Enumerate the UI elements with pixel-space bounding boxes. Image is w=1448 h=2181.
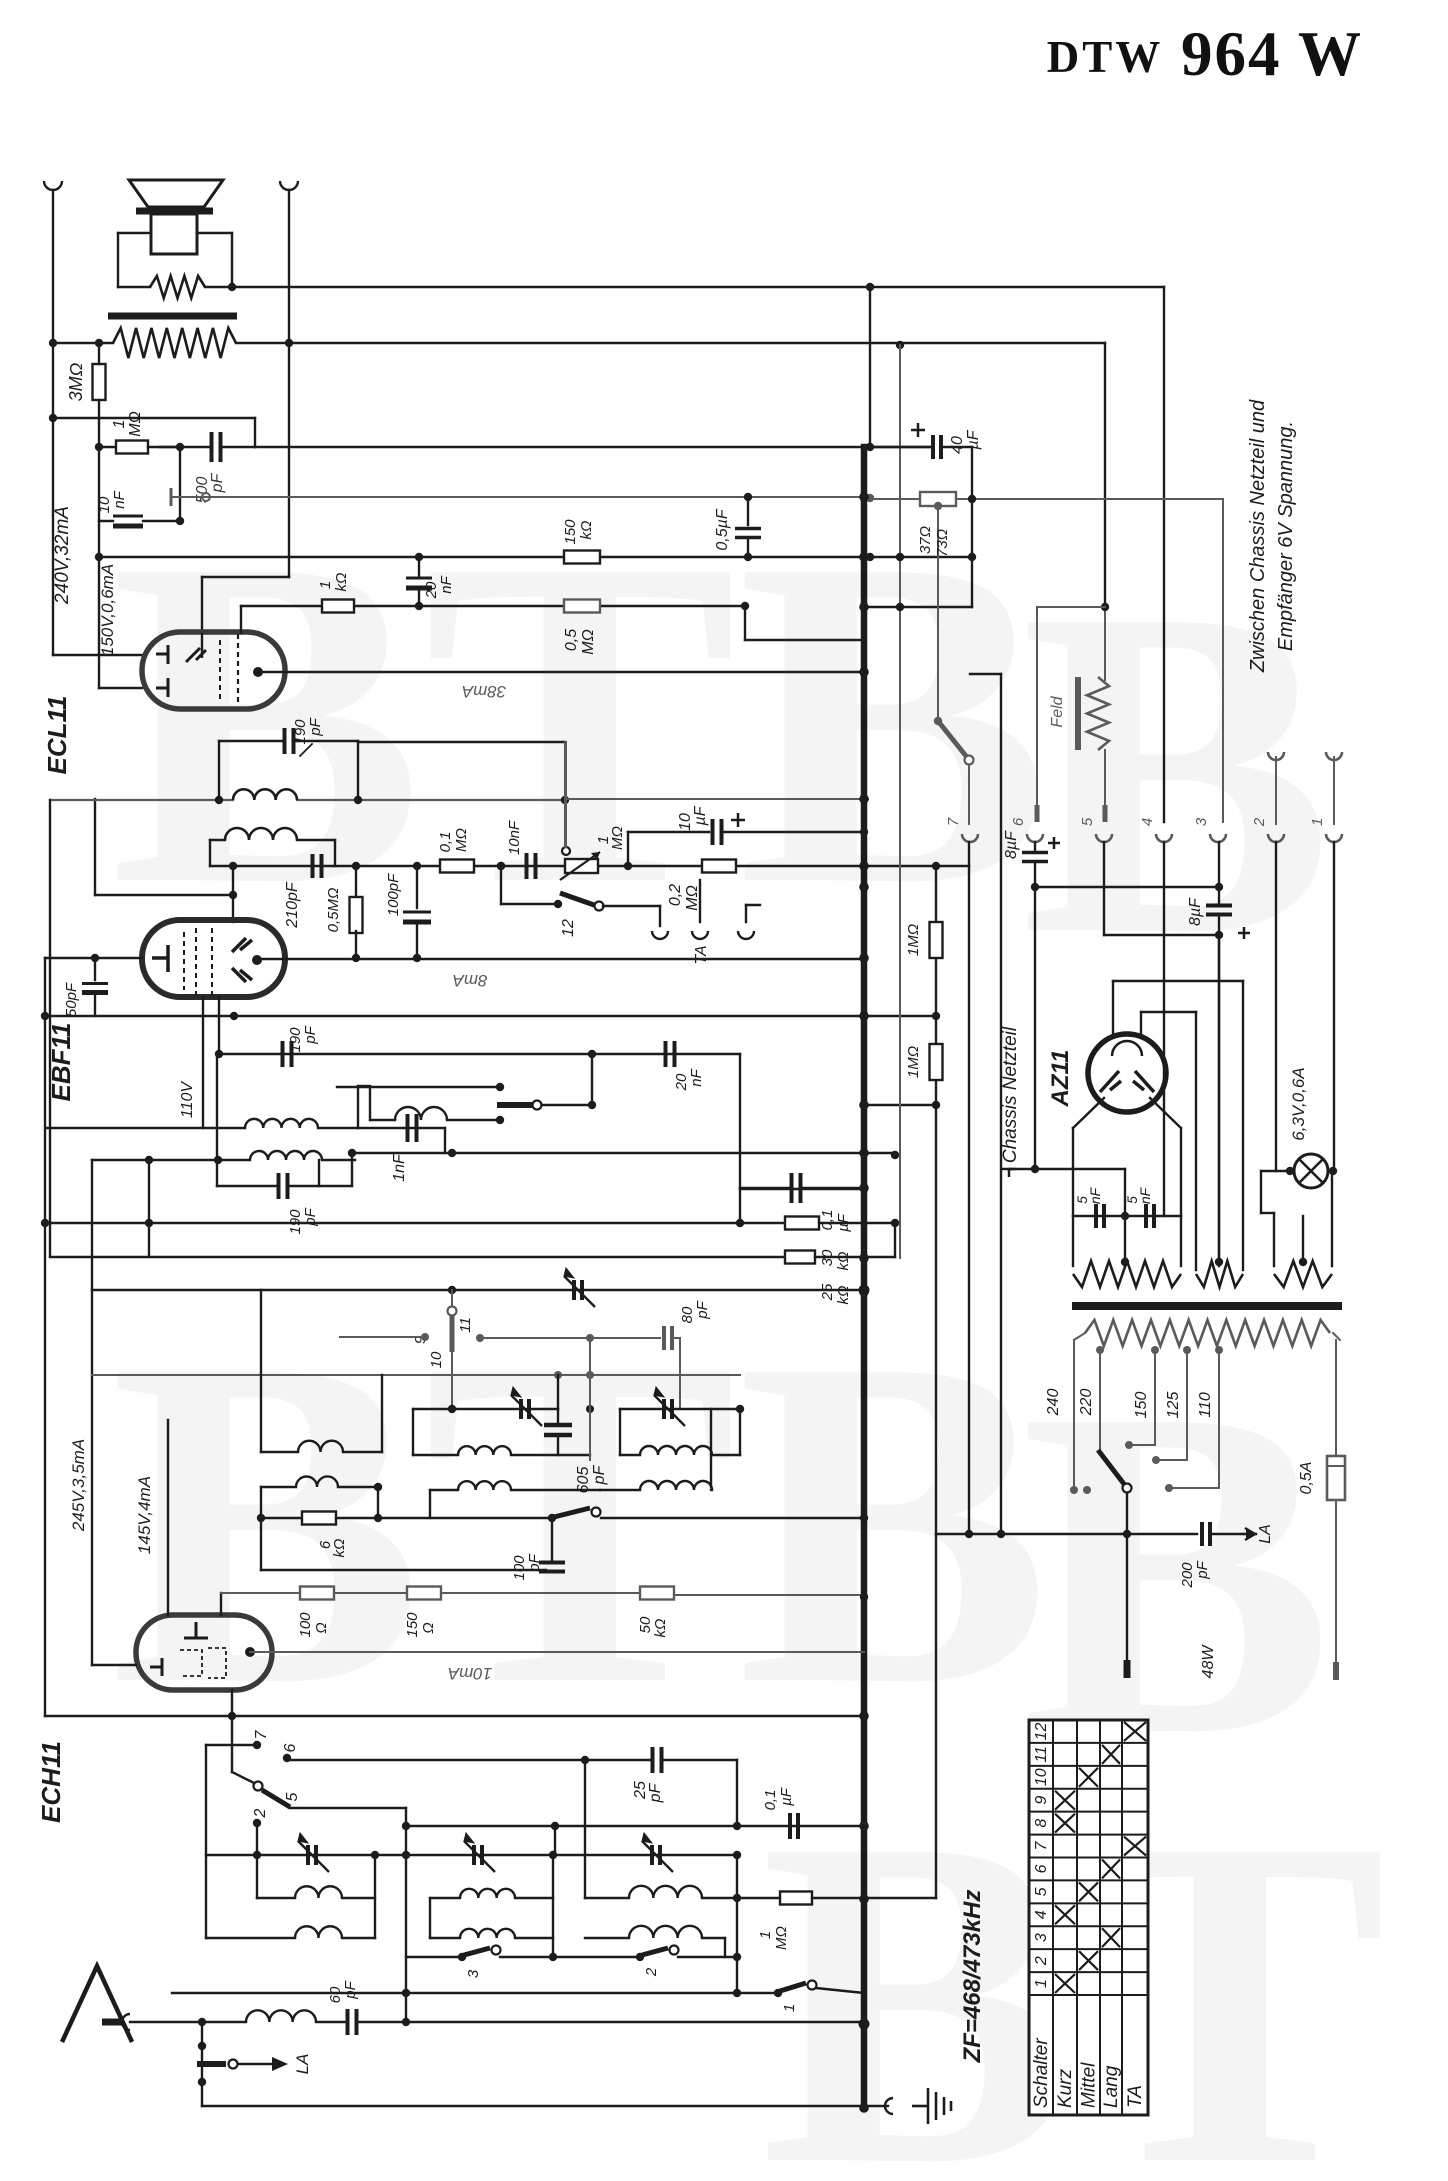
wire line-y1128 (47, 1127, 245, 1129)
IF1 coil 1 (233, 789, 297, 800)
wire (551, 1518, 553, 1561)
junction (733, 1989, 741, 1997)
capacitor 1nF (408, 1114, 417, 1142)
junction (1215, 931, 1223, 939)
wire (1140, 1012, 1142, 1035)
svg-text:4: 4 (1033, 1910, 1050, 1919)
svg-text:Ω: Ω (313, 1622, 330, 1633)
arrowhead LA (272, 2057, 288, 2071)
bus junction (859, 794, 869, 804)
wire (540, 1104, 592, 1106)
wire (413, 1454, 458, 1456)
capacitor 40uF (933, 435, 941, 459)
resistor 1k (322, 600, 354, 613)
wire (737, 1897, 780, 1899)
junction (934, 717, 942, 725)
ant coil A2 (295, 1926, 342, 1938)
wire (216, 1054, 218, 1186)
speaker hum-coil resistor (150, 276, 205, 298)
junction (866, 283, 874, 291)
wire (232, 1772, 254, 1783)
svg-text:0,5MΩ: 0,5MΩ (325, 888, 342, 933)
junction (733, 1822, 741, 1830)
bus junction (859, 1894, 869, 1904)
wire (220, 1593, 222, 1615)
wire tap220 (1099, 1350, 1101, 1450)
junction (554, 900, 562, 908)
svg-text:nF: nF (111, 490, 128, 508)
wire (1331, 1171, 1333, 1266)
ECH11 anode top (184, 1622, 208, 1638)
wire (815, 1256, 864, 1258)
wire bus thick (861, 447, 868, 2108)
svg-text:1: 1 (1033, 1979, 1050, 1988)
junction (415, 553, 423, 561)
terminal 6V 2 (1268, 752, 1284, 760)
speaker cone (129, 180, 223, 207)
svg-text:6,3V,0,6A: 6,3V,0,6A (1289, 1067, 1308, 1140)
EBF11 diode plates (232, 938, 252, 982)
wire line-A (232, 286, 1164, 288)
junction (744, 553, 752, 561)
wire (744, 606, 746, 640)
tap sel 125 (1152, 1456, 1160, 1464)
wire (724, 1938, 726, 1957)
AZ11 plates (1100, 1071, 1154, 1092)
wire (1124, 1216, 1126, 1266)
switch contact (533, 1101, 542, 1110)
junction (257, 1514, 265, 1522)
svg-text:48W: 48W (1200, 1644, 1217, 1679)
wire (864, 606, 972, 608)
wire (1073, 1215, 1181, 1217)
pot wiper terminal (562, 847, 570, 855)
svg-text:pF: pF (342, 1980, 359, 1999)
junction (965, 1530, 973, 1538)
svg-text:TA: TA (1125, 2085, 1146, 2108)
capacitor 100pF B (539, 1563, 565, 1572)
terminal hook A (44, 181, 62, 190)
switch 12 contact (595, 902, 604, 911)
junction (229, 891, 237, 899)
bus junction (859, 552, 869, 562)
junction (41, 1012, 49, 1020)
junction (866, 443, 874, 451)
output transformer primary (113, 328, 236, 358)
wire (1072, 1128, 1074, 1216)
wire (564, 800, 566, 847)
wire (585, 1759, 653, 1761)
wire (589, 1338, 591, 1460)
svg-text:0,1: 0,1 (762, 1790, 779, 1811)
trimmer terminal (202, 493, 210, 501)
wire (971, 447, 973, 607)
junction (932, 1012, 940, 1020)
svg-text:0,2: 0,2 (667, 884, 684, 906)
wire (565, 742, 567, 847)
wire (219, 740, 285, 742)
junction (448, 1286, 456, 1294)
wire (585, 1937, 629, 1939)
wire line-y1855 (206, 1854, 737, 1856)
junction (497, 862, 505, 870)
junction (997, 1530, 1005, 1538)
svg-text:2: 2 (1033, 1956, 1050, 1966)
wire (357, 2021, 406, 2023)
wire (238, 2063, 272, 2065)
wire (1034, 862, 1036, 1169)
junction (586, 1405, 594, 1413)
wire (591, 1054, 593, 1105)
tap 125 (1183, 1346, 1191, 1354)
wire line-y1153 (352, 1152, 893, 1154)
wire (357, 1086, 359, 1128)
junction (49, 339, 57, 347)
svg-text:150: 150 (1133, 1392, 1150, 1419)
wire (1035, 886, 1219, 888)
junction (348, 1149, 356, 1157)
wire (419, 605, 745, 607)
junction (228, 283, 236, 291)
wire (53, 342, 113, 344)
svg-text:110: 110 (1197, 1392, 1214, 1418)
terminal hook TA2 (692, 931, 708, 939)
wire (53, 654, 142, 656)
bus junction (859, 1253, 869, 1263)
osc2 coil A2 (629, 1926, 702, 1938)
junction (859, 2019, 870, 2030)
svg-text:125: 125 (1165, 1392, 1182, 1419)
wire (418, 557, 420, 577)
wire line-y1086 (358, 1085, 370, 1087)
wire (45, 957, 142, 959)
wire (205, 286, 232, 288)
wire (674, 1594, 864, 1596)
wire tap125 (1186, 1350, 1188, 1460)
wire (202, 576, 289, 578)
wire (511, 1454, 590, 1456)
svg-text:150V,0,6mA: 150V,0,6mA (98, 564, 117, 656)
EBF11 grid dash 1 (183, 932, 185, 990)
svg-text:0,5µF: 0,5µF (714, 508, 731, 550)
junction (968, 553, 976, 561)
wire tap240 (1073, 1340, 1075, 1487)
svg-text:5: 5 (284, 1792, 301, 1801)
wire (699, 880, 701, 922)
svg-text:2: 2 (643, 1967, 660, 1977)
svg-text:11: 11 (457, 1317, 474, 1333)
wire line-10mA (250, 1651, 864, 1653)
wire (628, 831, 709, 833)
svg-text:Ω: Ω (420, 1622, 437, 1633)
wire (94, 799, 96, 895)
svg-text:1: 1 (757, 1931, 774, 1939)
switch 5 contact (254, 1782, 263, 1791)
output transformer core (108, 313, 237, 320)
svg-text:kΩ: kΩ (331, 1539, 348, 1558)
switch 1 pivot (774, 1989, 782, 1997)
wire grid link (95, 894, 233, 896)
svg-text:ECH11: ECH11 (36, 1741, 66, 1823)
wire (869, 287, 871, 447)
wire (1124, 1169, 1126, 1216)
wire (430, 1937, 460, 1939)
svg-text:145V,4mA: 145V,4mA (135, 1476, 154, 1554)
svg-text:40: 40 (949, 436, 966, 454)
wire (589, 1375, 591, 1455)
wire (1000, 674, 1002, 1534)
wire (1156, 1459, 1187, 1461)
capacitor 210pF (313, 854, 322, 878)
svg-text:25: 25 (819, 1283, 836, 1301)
wire (672, 1337, 680, 1339)
junction (1031, 883, 1039, 891)
wire line-y1256 (50, 1256, 785, 1258)
junction (198, 2078, 206, 2086)
svg-text:10: 10 (428, 1351, 445, 1368)
junction (354, 796, 362, 804)
wire (1126, 1493, 1128, 1534)
wire (99, 520, 113, 522)
wire left bus3 (44, 958, 46, 1716)
capacitor 190pF C (279, 1173, 288, 1199)
svg-text:MΩ: MΩ (453, 828, 470, 852)
IF2 coil 1 (245, 1119, 318, 1128)
wire (337, 1086, 500, 1088)
junction (145, 1219, 153, 1227)
wire (99, 446, 118, 448)
trimmer ant A (298, 1833, 329, 1872)
junction (95, 553, 103, 561)
ground hook (885, 2098, 893, 2114)
junction (91, 954, 99, 962)
svg-text:MΩ: MΩ (580, 629, 597, 655)
feld stub (1035, 805, 1040, 822)
wire (231, 1716, 233, 1772)
svg-text:2: 2 (252, 1808, 269, 1818)
switch 3 pivot (458, 1953, 466, 1961)
wire (201, 2022, 203, 2106)
svg-text:2: 2 (1251, 817, 1268, 827)
capacitor 8uF a (1022, 853, 1048, 862)
wire (429, 1490, 431, 1518)
wire (256, 1823, 258, 1855)
svg-text:1: 1 (317, 581, 334, 589)
junction (891, 1219, 899, 1227)
terminal 11 (476, 1334, 484, 1342)
bus junction (859, 1821, 869, 1831)
junction (733, 1851, 741, 1859)
wire 110V (202, 997, 204, 1128)
junction (891, 1151, 899, 1159)
switch lever pin7 (938, 721, 966, 756)
ant coil A1 (295, 1886, 342, 1898)
wire (1273, 1213, 1275, 1266)
wire (515, 1937, 553, 1939)
resistor 37/73 ohm (920, 492, 956, 506)
junction (549, 1851, 557, 1859)
wire (864, 1104, 936, 1106)
wire (241, 605, 322, 607)
wire (53, 417, 255, 419)
capacitor 25pF (653, 1747, 662, 1773)
svg-text:Feld: Feld (1049, 695, 1066, 727)
wire (1163, 287, 1165, 822)
junction (448, 1405, 456, 1413)
wire (1180, 1216, 1182, 1266)
wire tap110 (1218, 1350, 1220, 1488)
svg-text:37Ω: 37Ω (917, 526, 934, 554)
wire (1242, 981, 1244, 1270)
wire (1261, 1170, 1295, 1172)
wire (231, 233, 233, 287)
field coil core (1075, 677, 1081, 750)
svg-text:4: 4 (1139, 818, 1156, 826)
wire (355, 605, 419, 607)
tap sel 150 (1125, 1441, 1133, 1449)
wire line-E (258, 671, 864, 673)
wiper stub (170, 488, 173, 506)
ground symbol (912, 2088, 951, 2124)
junction (860, 954, 868, 962)
capacitor 20nF B2 (666, 1041, 675, 1067)
osc coil G3b (640, 1481, 712, 1490)
tap sel 110 (1165, 1484, 1173, 1492)
wire tap150 (1154, 1350, 1156, 1445)
wire (711, 1489, 712, 1491)
ECL11 grid feed (201, 633, 203, 658)
svg-text:3: 3 (465, 1969, 482, 1978)
wire (444, 1128, 446, 1153)
ECL11 grid dash 1 (237, 634, 239, 706)
terminal 6V 1 (1326, 752, 1342, 760)
arrow LA2 (1243, 1528, 1257, 1540)
svg-text:3: 3 (1193, 817, 1210, 826)
junction (1329, 1167, 1337, 1175)
junction (741, 602, 749, 610)
switch table grid (1029, 1720, 1148, 2115)
wire (406, 1956, 462, 1958)
ECL11 cathode 2 (156, 678, 168, 697)
svg-text:LA: LA (293, 2054, 312, 2075)
wire (870, 446, 933, 448)
osc2 coil A1 (629, 1886, 702, 1898)
bus junction (859, 2020, 869, 2030)
wire (94, 958, 96, 980)
wire (816, 1988, 864, 1993)
svg-text:1: 1 (111, 420, 128, 429)
wire (210, 839, 225, 841)
bus junction (859, 1148, 869, 1158)
wire (416, 924, 418, 958)
wire (377, 1487, 379, 1518)
wire line-EBF-anode (257, 958, 864, 960)
junction (215, 796, 223, 804)
svg-text:8µF: 8µF (1003, 830, 1020, 859)
pilot lamp winding (1274, 1261, 1332, 1287)
junction (413, 862, 421, 870)
wire (1009, 1168, 1125, 1170)
wire (355, 866, 357, 899)
speaker bar (136, 208, 213, 215)
resistor 6k (302, 1512, 336, 1525)
svg-text:AZ11: AZ11 (1047, 1050, 1074, 1108)
junction (352, 954, 360, 962)
resistor 0.5M vert (350, 897, 363, 933)
terminal 240 (1070, 1486, 1078, 1494)
wire agc gray (171, 496, 868, 498)
junction (860, 1012, 868, 1020)
junction (49, 414, 57, 422)
wire (430, 1897, 460, 1899)
wire (236, 342, 289, 344)
junction (733, 1953, 741, 1961)
wire (620, 1408, 740, 1410)
svg-text:Zwischen Chassis Netzteil und: Zwischen Chassis Netzteil und (1247, 399, 1269, 673)
svg-text:MΩ: MΩ (127, 411, 144, 437)
junction (230, 1012, 238, 1020)
svg-text:µF: µF (965, 429, 982, 450)
capacitor 10nF B (527, 853, 536, 879)
wire (515, 1897, 553, 1899)
tube ECH11 (136, 1615, 272, 1690)
wire feld right (1104, 607, 1106, 680)
junction (496, 1116, 504, 1124)
resistor 1M (116, 441, 148, 454)
bus junction (859, 1287, 869, 1297)
wire (381, 1375, 383, 1452)
wire (557, 1375, 559, 1409)
EBF11 grid dash 3 (211, 928, 213, 996)
wire (941, 446, 972, 448)
IF2 coil 2 (250, 1151, 322, 1160)
wire line-y1223 (45, 1222, 785, 1224)
junction (229, 862, 237, 870)
wire (232, 866, 234, 922)
svg-text:kΩ: kΩ (578, 521, 595, 540)
switch 5 lever (262, 1790, 290, 1807)
wire (260, 1487, 262, 1570)
wire line-y1054 (219, 1053, 740, 1055)
wire (557, 1436, 559, 1455)
junction (1123, 1530, 1131, 1538)
junction (624, 862, 632, 870)
svg-text:pF: pF (591, 1464, 608, 1485)
wire (336, 1517, 552, 1519)
wire (1150, 1098, 1181, 1128)
svg-text:EBF11: EBF11 (46, 1023, 76, 1102)
svg-text:240: 240 (1045, 1389, 1062, 1417)
voltage selector lever (1098, 1450, 1124, 1484)
switch table headers (1031, 2038, 1146, 2108)
svg-text:Schalter: Schalter (1031, 2038, 1052, 2108)
wire (1074, 1333, 1085, 1340)
wire (369, 1087, 371, 1120)
capacitor 10nF (113, 516, 143, 526)
ECH11 cathode (150, 1658, 162, 1676)
wire (501, 903, 558, 905)
wire (1335, 1340, 1337, 1456)
switch 3 lever (464, 1948, 490, 1955)
wire line-ant (130, 2021, 246, 2023)
wire gray mid (899, 345, 901, 1258)
wire (745, 905, 747, 922)
switch osc contact (592, 1508, 601, 1517)
wire (1169, 1487, 1219, 1489)
junction (588, 1050, 596, 1058)
svg-text:150: 150 (404, 1612, 421, 1638)
wire (261, 1517, 302, 1519)
